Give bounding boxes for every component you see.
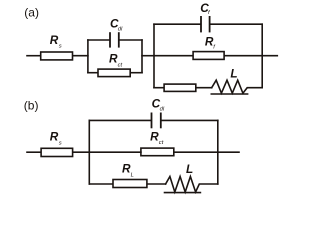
svg-text:s: s xyxy=(59,44,62,50)
svg-text:(b): (b) xyxy=(24,99,39,113)
svg-text:L: L xyxy=(230,66,237,80)
svg-text:L: L xyxy=(131,173,134,179)
svg-text:dl: dl xyxy=(160,107,165,113)
svg-text:s: s xyxy=(59,140,62,146)
svg-text:R: R xyxy=(50,33,59,47)
svg-text:ct: ct xyxy=(159,140,164,146)
svg-text:dl: dl xyxy=(118,26,123,32)
svg-text:(a): (a) xyxy=(24,5,39,19)
svg-text:f: f xyxy=(208,10,211,16)
svg-text:f: f xyxy=(213,44,216,50)
svg-text:R: R xyxy=(150,130,159,144)
svg-text:ct: ct xyxy=(118,62,123,68)
svg-text:L: L xyxy=(186,162,193,176)
svg-text:R: R xyxy=(50,129,59,143)
